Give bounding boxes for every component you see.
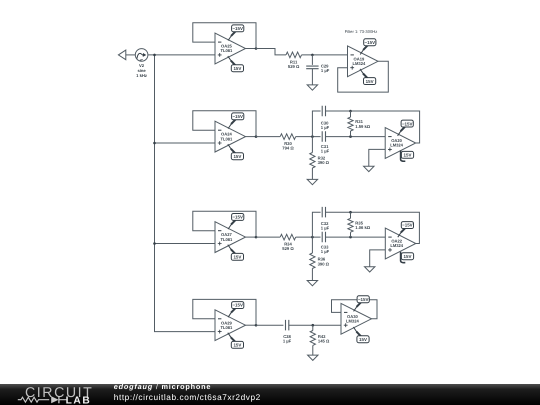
wire OA24 output [246, 136, 257, 138]
svg-text:LM324: LM324 [390, 243, 403, 248]
wire bus vertical to OA29 + input [155, 55, 216, 332]
svg-text:1 µF: 1 µF [321, 249, 330, 254]
capacitor C29 [306, 66, 318, 69]
supply flag 15V on OA27 [228, 245, 244, 261]
wire R35 top lead [350, 212, 352, 218]
wire R36 to ground [311, 269, 313, 281]
op-amp OA19 (OA19 LM324) [348, 46, 379, 77]
node bus row3 [153, 242, 156, 245]
resistor R30 [280, 134, 296, 140]
svg-text:LM324: LM324 [346, 319, 359, 324]
wire OA25 output [246, 48, 257, 50]
wire R43 to ground [312, 345, 314, 355]
svg-text:15V: 15V [404, 153, 412, 158]
node OA24 output junction [255, 135, 258, 138]
resistor R34 [280, 234, 296, 240]
supply flag -15V on OA19 [360, 39, 376, 55]
supply flag 15V on OA25 [228, 56, 244, 72]
capacitor C32 [322, 207, 325, 218]
wire bus to OA27 + input [155, 243, 216, 245]
resistor R43 [310, 331, 315, 346]
ground below R43 [308, 355, 318, 360]
supply flag -15V on OA22 [398, 222, 414, 238]
op-amp OA25 (OA25 TL081) [215, 33, 246, 64]
wire bus to OA24 + input [155, 142, 216, 144]
wire R32 to ground [311, 168, 313, 179]
capacitor C31 [322, 131, 325, 142]
svg-text:1 µF: 1 µF [283, 339, 292, 344]
node C38/R43 [312, 324, 315, 327]
wire R30 to C31 [296, 136, 321, 138]
capacitor C33 [322, 232, 325, 243]
ground below R36 [307, 281, 317, 286]
node OA29 output junction [255, 324, 258, 327]
node R35 top [349, 211, 352, 214]
ground at OA20 + input [364, 166, 374, 171]
node A row2 [311, 135, 314, 138]
wire OA20 + input to ground [369, 149, 385, 166]
supply flag -15V on OA25 [228, 25, 244, 41]
svg-text:−15V: −15V [232, 303, 243, 308]
svg-text:15V: 15V [233, 343, 241, 348]
svg-text:TL081: TL081 [220, 237, 233, 242]
svg-text:390 Ω: 390 Ω [318, 261, 330, 266]
wire top rail row3 to OA22 output [326, 212, 420, 243]
node R31 top [349, 110, 352, 113]
svg-text:1 µF: 1 µF [321, 149, 330, 154]
resistor R36 [310, 253, 315, 269]
logo resistor-diode doodle [18, 397, 49, 402]
wire node to C29 [311, 55, 313, 65]
node bus row1 [153, 54, 156, 57]
wire C38 to OA30 + input [289, 324, 341, 326]
wire OA25 feedback loop [193, 23, 256, 49]
op-amp OA24 (OA24 TL081) [215, 121, 246, 152]
wire port to V2 [126, 54, 136, 56]
ground at OA22 + input [365, 267, 375, 272]
svg-text:http://circuitlab.com/ct6sa7xr: http://circuitlab.com/ct6sa7xr2dvp2 [114, 392, 261, 402]
svg-text:TL081: TL081 [220, 48, 233, 53]
wire R34 to C33 [296, 236, 321, 238]
svg-text:1 µF: 1 µF [321, 125, 330, 130]
supply flag -15V on OA24 [228, 113, 244, 129]
supply flag -15V on OA20 [398, 120, 414, 136]
supply flag 15V on OA20 [401, 150, 414, 161]
resistor R11 [286, 52, 302, 58]
op-amp OA22 (OA22 LM324) [385, 228, 416, 259]
svg-text:−15V: −15V [402, 121, 413, 126]
wire OA19 output feedback to + input [338, 61, 389, 92]
wire C33 to OA22 - input [326, 236, 386, 238]
wire OA24 feedback loop [193, 111, 256, 137]
wire node A up to top rail [312, 111, 320, 137]
supply flag -15V on OA30 [354, 296, 370, 312]
svg-text:edogfaug / microphone: edogfaug / microphone [114, 382, 211, 391]
wire C31 to OA20 - input [326, 136, 386, 138]
wire node to R43 [312, 325, 314, 330]
svg-text:145 Ω: 145 Ω [318, 339, 330, 344]
resistor R31 [348, 117, 353, 131]
svg-text:1 µF: 1 µF [321, 68, 330, 73]
op-amp OA20 (OA20 LM324) [385, 128, 416, 159]
supply flag 15V on OA19 [360, 69, 376, 85]
svg-text:529 Ω: 529 Ω [282, 246, 294, 251]
op-amp OA27 (OA27 TL081) [215, 222, 246, 253]
op-amp OA29 (OA29 TL081) [215, 310, 246, 341]
capacitor C30 [322, 106, 325, 116]
svg-text:1.06 kΩ: 1.06 kΩ [355, 225, 371, 230]
wire OA22 + input to ground [370, 250, 386, 267]
wire R35 bottom lead [350, 232, 352, 237]
node OA25 output junction [255, 47, 258, 50]
svg-text:−15V: −15V [232, 215, 243, 220]
svg-text:LM324: LM324 [353, 61, 366, 66]
supply flag 15V on OA22 [401, 252, 414, 263]
node R11/C29 [311, 54, 314, 57]
wire C29 to ground [311, 69, 313, 85]
wire OA30 output feedback to - input [332, 300, 378, 319]
svg-text:−15V: −15V [232, 114, 243, 119]
svg-text:15V: 15V [366, 79, 374, 84]
svg-text:−15V: −15V [402, 223, 413, 228]
wire R31 top lead [350, 111, 352, 117]
svg-text:LAB: LAB [66, 396, 92, 405]
wire OA29 output [246, 324, 257, 326]
wire OA27 output to R34 [256, 236, 280, 238]
svg-text:1 µF: 1 µF [321, 226, 330, 231]
wire OA27 feedback loop [193, 211, 256, 237]
svg-text:15V: 15V [359, 337, 367, 342]
capacitor C38 [286, 320, 289, 331]
svg-text:15V: 15V [404, 254, 412, 259]
svg-text:1 kHz: 1 kHz [136, 73, 147, 78]
supply flag 15V on OA24 [228, 144, 244, 160]
svg-text:LM324: LM324 [390, 143, 403, 148]
wire node A row3 to R36 [311, 237, 313, 253]
wire node A to R32 [311, 137, 313, 153]
wire top rail to OA20 output [326, 111, 420, 143]
supply flag -15V on OA29 [228, 302, 244, 318]
wire R11 to OA19 - input [302, 54, 348, 56]
wire OA25 output to R11 [256, 49, 286, 55]
wire node A row3 up to top rail [312, 212, 320, 237]
svg-text:TL081: TL081 [220, 136, 233, 141]
supply flag 15V on OA30 [353, 327, 369, 343]
wire V2 to OA25 + input [148, 54, 215, 56]
svg-text:15V: 15V [233, 154, 241, 159]
svg-text:−15V: −15V [365, 40, 376, 45]
svg-text:TL081: TL081 [220, 325, 233, 330]
svg-text:390 Ω: 390 Ω [318, 160, 330, 165]
wire OA29 output to C38 [256, 324, 283, 326]
node A row3 [311, 236, 314, 239]
wire OA29 feedback loop [193, 299, 256, 325]
ground below C29 [307, 85, 317, 90]
voltage source V2 [135, 49, 148, 62]
svg-text:15V: 15V [233, 66, 241, 71]
node R31 bottom [349, 135, 352, 138]
node R35 bottom [349, 236, 352, 239]
wire OA27 output [246, 236, 257, 238]
op-amp OA30 (OA30 LM324) [341, 303, 372, 334]
svg-text:−15V: −15V [232, 26, 243, 31]
supply flag 15V on OA29 [228, 333, 244, 349]
supply flag -15V on OA27 [228, 214, 244, 230]
svg-text:Filter 1: 73-300Hz: Filter 1: 73-300Hz [345, 29, 378, 34]
svg-text:794 Ω: 794 Ω [282, 146, 294, 151]
wire R31 bottom lead [350, 131, 352, 137]
svg-text:15V: 15V [233, 255, 241, 260]
input port terminal [118, 50, 125, 60]
wire OA24 output to R30 [256, 136, 280, 138]
resistor R35 [348, 218, 353, 232]
resistor R32 [310, 153, 315, 169]
svg-text:529 Ω: 529 Ω [288, 64, 300, 69]
ground below R32 [307, 179, 317, 184]
node bus row2 [153, 142, 156, 145]
node OA27 output junction [255, 236, 258, 239]
svg-text:1.59 kΩ: 1.59 kΩ [355, 124, 371, 129]
svg-text:−15V: −15V [358, 297, 369, 302]
